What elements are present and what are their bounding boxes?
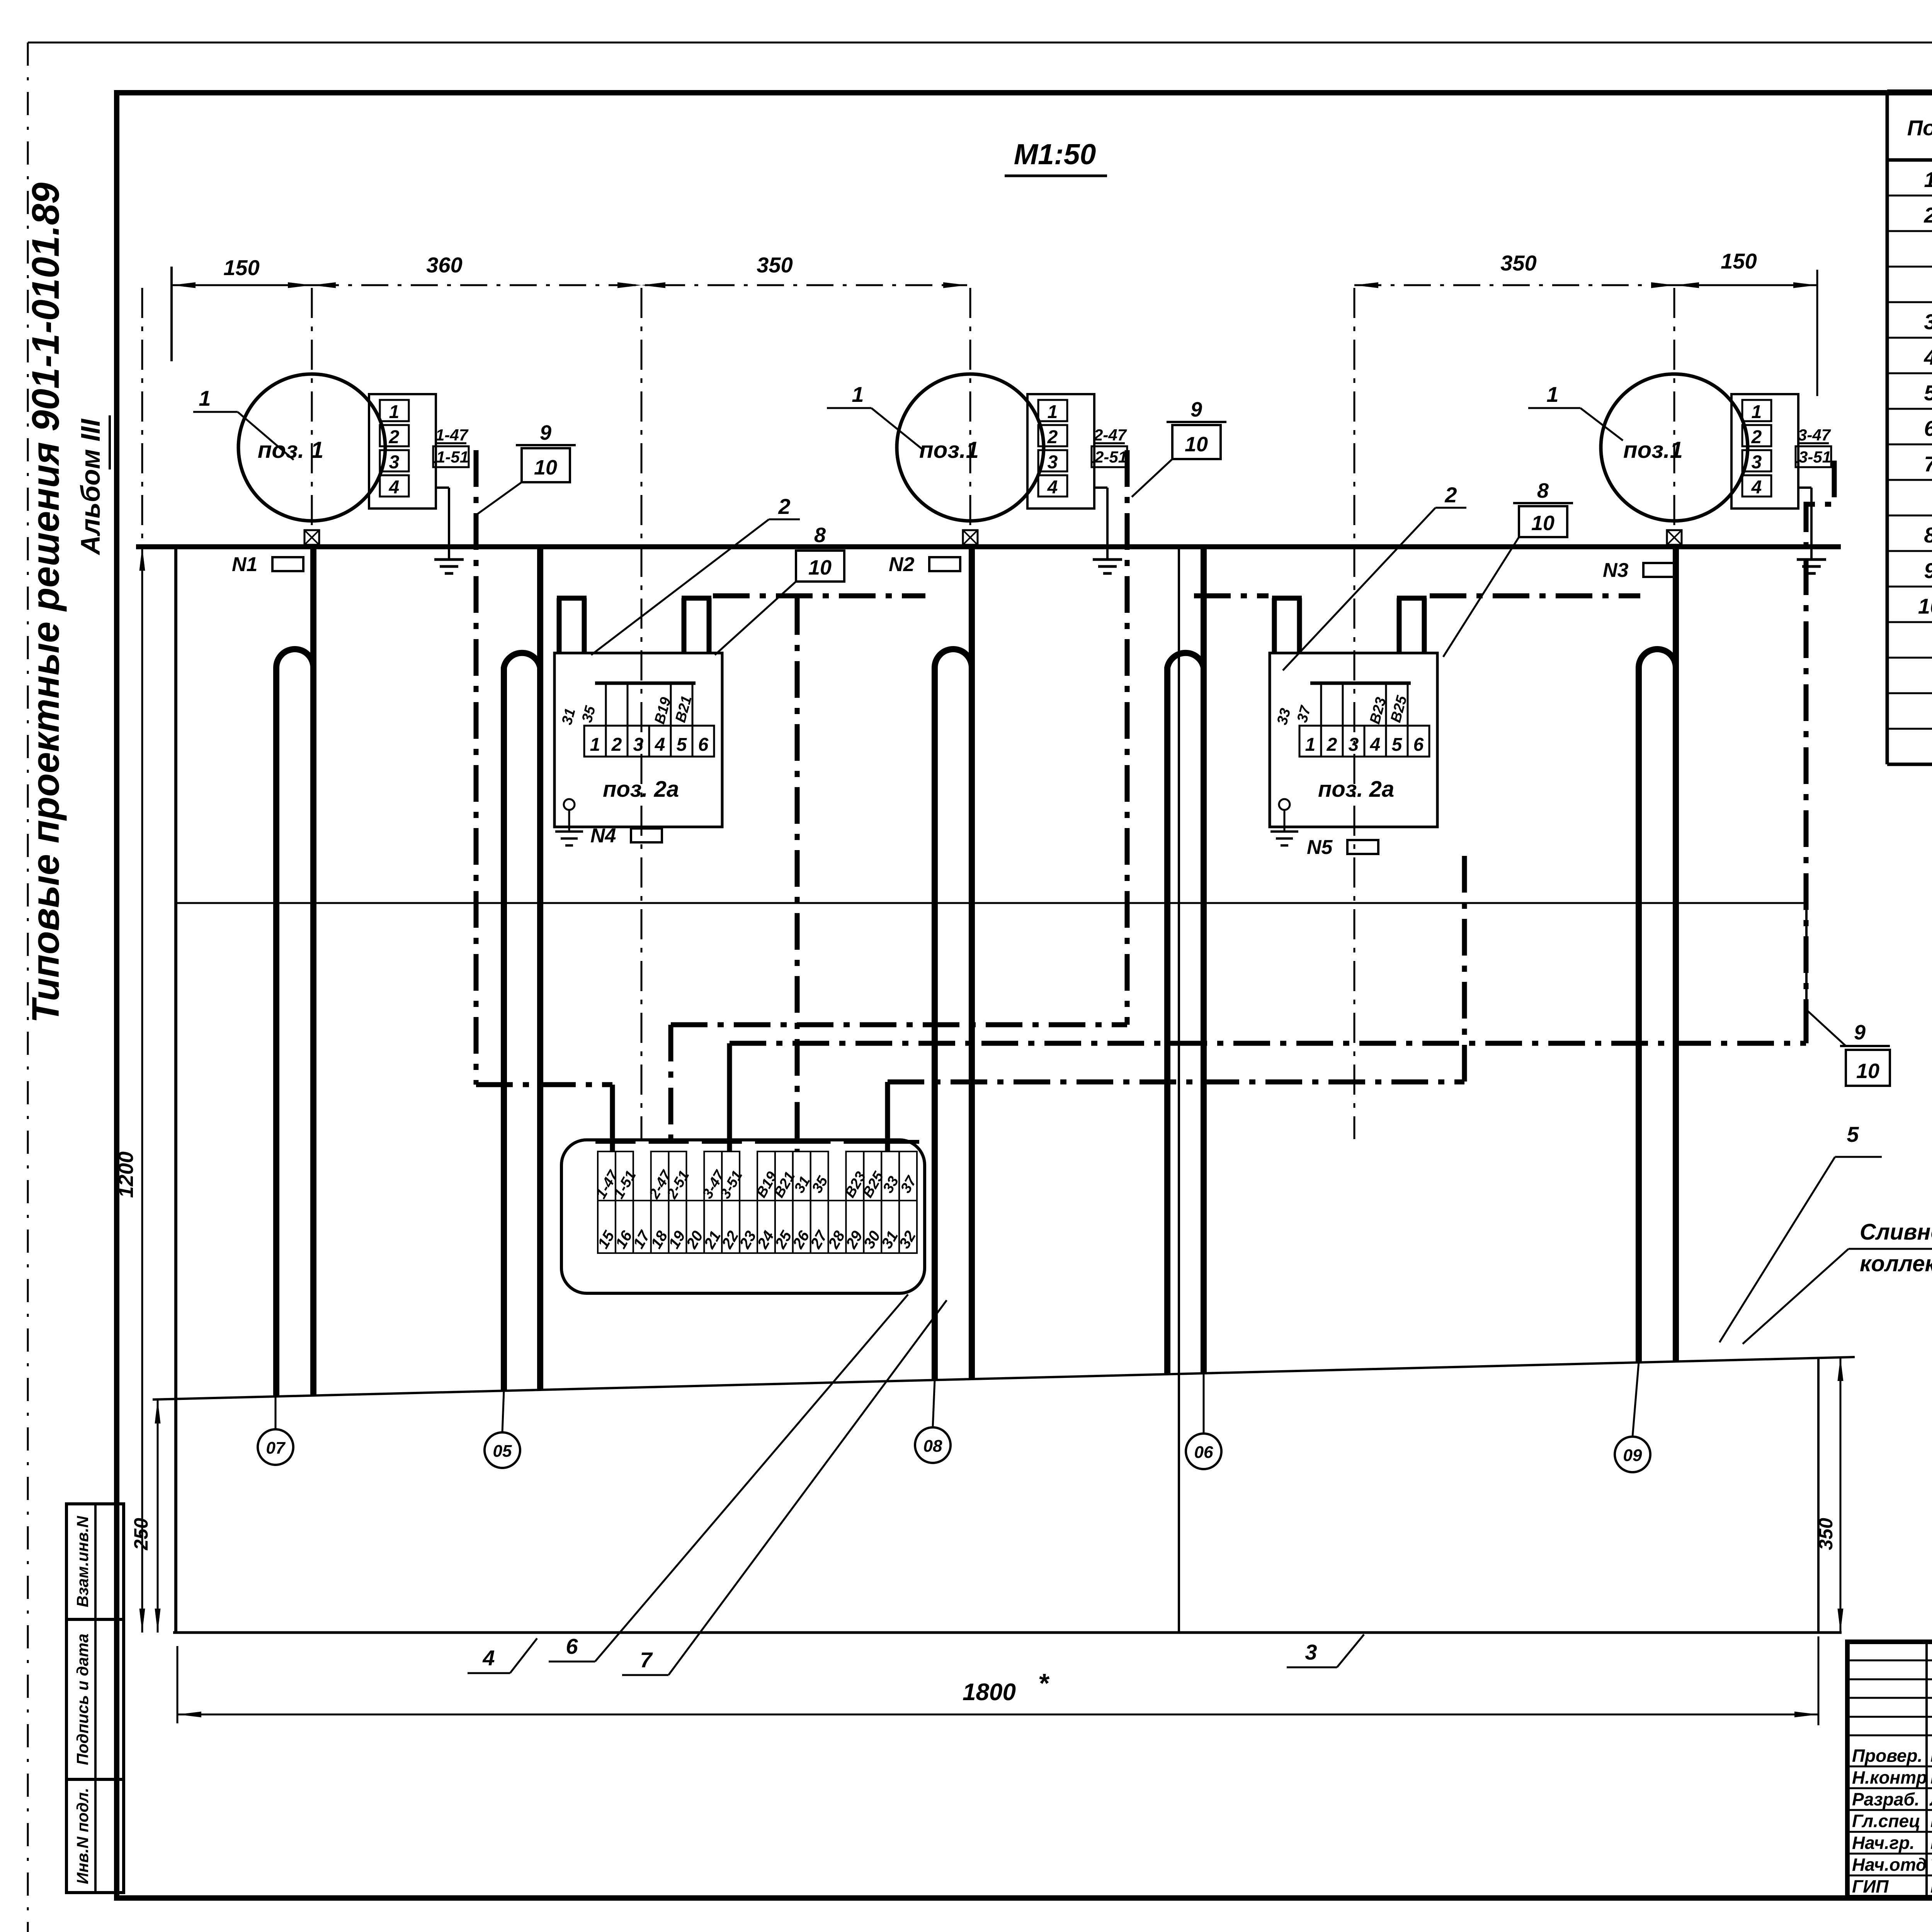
svg-text:4: 4 <box>1047 477 1058 498</box>
svg-text:Н.контр: Н.контр <box>1852 1767 1927 1787</box>
svg-text:7: 7 <box>1924 452 1932 476</box>
svg-text:150: 150 <box>223 255 259 280</box>
svg-text:2-51: 2-51 <box>1094 448 1127 466</box>
svg-text:Рудницкий: Рудницкий <box>1930 1745 1932 1765</box>
svg-text:Взам.инв.N: Взам.инв.N <box>73 1515 92 1607</box>
svg-text:4: 4 <box>1751 477 1762 498</box>
svg-text:поз.1: поз.1 <box>1623 437 1683 463</box>
svg-text:Поз.: Поз. <box>1907 116 1932 140</box>
svg-text:коллектор: коллектор <box>1860 1251 1932 1276</box>
svg-text:поз. 1: поз. 1 <box>258 437 324 463</box>
svg-text:350: 350 <box>1815 1518 1837 1550</box>
svg-text:2: 2 <box>778 494 790 519</box>
svg-text:8: 8 <box>814 524 826 547</box>
svg-text:Типовые проектные решения 9: Типовые проектные решения 901-1-0101.89 <box>24 182 67 1023</box>
svg-text:Терехов: Терехов <box>1930 1855 1932 1875</box>
svg-text:Глузберг: Глузберг <box>1930 1811 1932 1831</box>
svg-text:6: 6 <box>566 1634 578 1658</box>
svg-text:2-47: 2-47 <box>1094 426 1127 444</box>
svg-text:6: 6 <box>698 735 709 755</box>
svg-text:5: 5 <box>1847 1122 1859 1146</box>
svg-text:2: 2 <box>1047 427 1058 447</box>
svg-text:5: 5 <box>677 735 687 755</box>
svg-text:2: 2 <box>1444 483 1457 507</box>
svg-text:1: 1 <box>1048 402 1058 422</box>
svg-text:6: 6 <box>1924 416 1932 440</box>
svg-text:1-51: 1-51 <box>436 448 469 466</box>
svg-text:Инв.N подл.: Инв.N подл. <box>73 1788 92 1884</box>
svg-text:05: 05 <box>493 1442 512 1461</box>
svg-text:ГИП: ГИП <box>1852 1876 1889 1896</box>
svg-text:3-51: 3-51 <box>1799 448 1831 466</box>
svg-text:09: 09 <box>1623 1446 1642 1465</box>
svg-text:2: 2 <box>1327 735 1337 755</box>
svg-text:поз. 2а: поз. 2а <box>603 777 679 802</box>
svg-text:6: 6 <box>1413 735 1424 755</box>
svg-text:350: 350 <box>1500 251 1536 275</box>
svg-text:9: 9 <box>1190 398 1202 421</box>
svg-text:3: 3 <box>1048 452 1058 473</box>
svg-text:N5: N5 <box>1307 836 1333 859</box>
svg-text:3: 3 <box>633 735 644 755</box>
svg-text:1800: 1800 <box>963 1679 1016 1706</box>
svg-text:5: 5 <box>1924 381 1932 405</box>
svg-text:350: 350 <box>757 253 793 277</box>
svg-text:4: 4 <box>482 1646 495 1670</box>
svg-text:Глузберг: Глузберг <box>1930 1767 1932 1787</box>
svg-text:3: 3 <box>1752 452 1762 473</box>
svg-text:N3: N3 <box>1603 559 1629 582</box>
svg-text:150: 150 <box>1721 249 1757 273</box>
svg-text:Сливной: Сливной <box>1860 1219 1932 1245</box>
svg-text:Нач.отд: Нач.отд <box>1852 1855 1927 1875</box>
svg-text:1: 1 <box>1924 167 1932 192</box>
svg-text:1: 1 <box>852 382 864 406</box>
svg-text:1: 1 <box>1752 402 1762 422</box>
svg-text:Рудницкий: Рудницкий <box>1930 1833 1932 1853</box>
svg-text:3: 3 <box>1305 1640 1317 1664</box>
svg-text:9: 9 <box>1854 1021 1866 1044</box>
svg-text:1: 1 <box>1305 735 1316 755</box>
svg-text:10: 10 <box>1185 433 1208 456</box>
svg-text:1-47: 1-47 <box>435 426 469 444</box>
svg-text:10: 10 <box>1856 1060 1879 1083</box>
svg-text:4: 4 <box>1923 345 1932 369</box>
svg-text:1: 1 <box>590 735 600 755</box>
svg-text:3-47: 3-47 <box>1798 426 1831 444</box>
svg-text:1200: 1200 <box>114 1151 138 1198</box>
svg-text:360: 360 <box>426 253 462 277</box>
svg-text:Провер.: Провер. <box>1852 1745 1922 1765</box>
svg-text:N2: N2 <box>889 553 915 576</box>
svg-text:10: 10 <box>534 456 557 479</box>
svg-text:1: 1 <box>199 386 211 410</box>
svg-text:9: 9 <box>1924 558 1932 583</box>
svg-text:3: 3 <box>1349 735 1359 755</box>
svg-text:06: 06 <box>1194 1443 1213 1462</box>
svg-text:Разраб.: Разраб. <box>1852 1789 1920 1809</box>
svg-text:*: * <box>1038 1668 1049 1698</box>
svg-text:8: 8 <box>1924 523 1932 547</box>
svg-text:5: 5 <box>1392 735 1403 755</box>
svg-text:N1: N1 <box>232 553 257 576</box>
svg-text:Подпись и дата: Подпись и дата <box>73 1634 92 1765</box>
svg-text:10: 10 <box>1918 594 1932 618</box>
svg-text:07: 07 <box>266 1439 286 1458</box>
svg-text:Гл.спец: Гл.спец <box>1852 1811 1920 1831</box>
svg-text:1: 1 <box>1546 382 1558 406</box>
svg-text:2: 2 <box>611 735 622 755</box>
svg-text:9: 9 <box>540 421 551 444</box>
svg-text:Волошин: Волошин <box>1930 1876 1932 1896</box>
svg-text:8: 8 <box>1537 479 1549 502</box>
svg-text:250: 250 <box>130 1518 152 1551</box>
svg-text:08: 08 <box>923 1437 942 1456</box>
svg-text:М1:50: М1:50 <box>1014 138 1096 170</box>
svg-text:Нач.гр.: Нач.гр. <box>1852 1833 1915 1853</box>
svg-text:4: 4 <box>1370 735 1381 755</box>
svg-text:1: 1 <box>389 402 400 422</box>
svg-text:поз. 2а: поз. 2а <box>1318 777 1394 802</box>
svg-text:3: 3 <box>389 452 400 473</box>
svg-text:10: 10 <box>1531 512 1554 535</box>
svg-text:10: 10 <box>808 556 832 579</box>
svg-text:3: 3 <box>1924 310 1932 334</box>
svg-text:Альбом III: Альбом III <box>75 418 105 556</box>
svg-text:7: 7 <box>640 1648 653 1672</box>
svg-text:2: 2 <box>389 427 400 447</box>
svg-text:2: 2 <box>1923 203 1932 227</box>
svg-text:4: 4 <box>655 735 665 755</box>
svg-text:поз.1: поз.1 <box>919 437 979 463</box>
svg-text:2: 2 <box>1751 427 1762 447</box>
svg-text:4: 4 <box>389 477 400 498</box>
